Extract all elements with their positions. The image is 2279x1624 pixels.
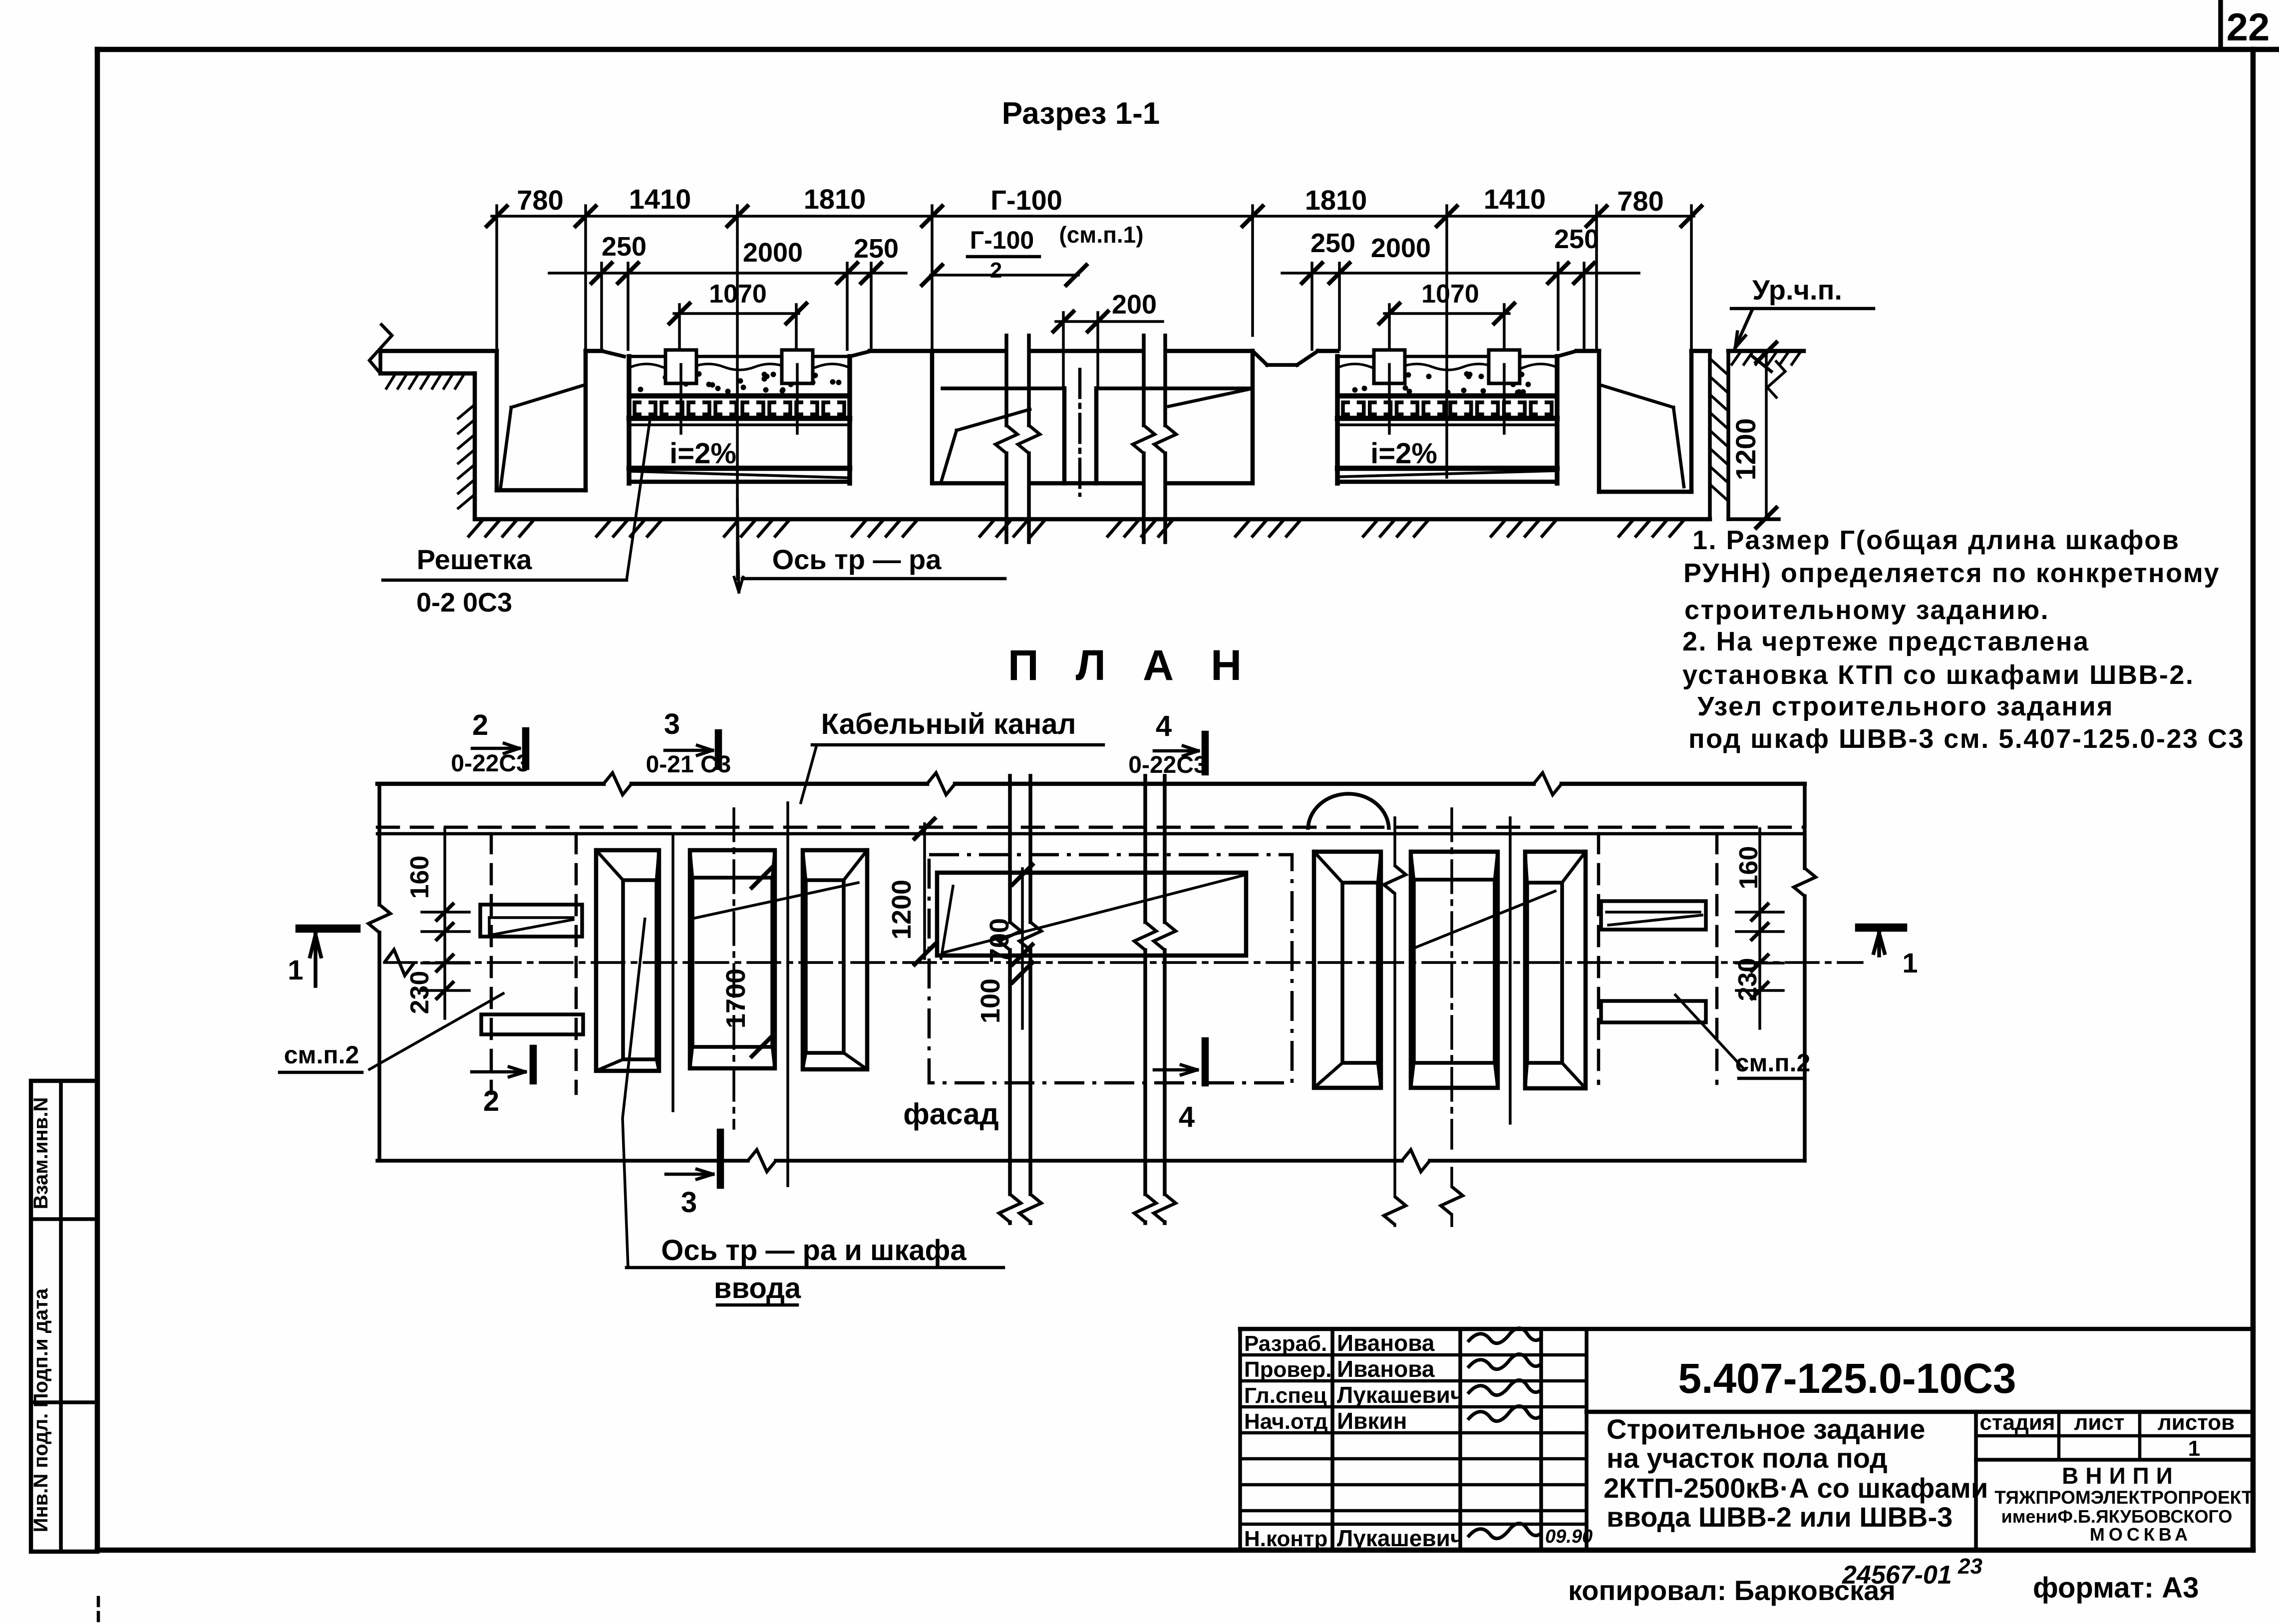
svg-text:формат: А3: формат: А3 <box>2033 1572 2199 1604</box>
svg-text:Ось тр — ра: Ось тр — ра <box>772 544 942 575</box>
svg-text:4: 4 <box>1156 710 1172 742</box>
svg-text:Решетка: Решетка <box>417 544 533 575</box>
svg-text:(см.п.1): (см.п.1) <box>1059 222 1143 248</box>
svg-text:1070: 1070 <box>709 280 767 309</box>
svg-text:см.п.2: см.п.2 <box>284 1041 359 1069</box>
svg-text:250: 250 <box>854 234 899 264</box>
svg-text:см.п.2: см.п.2 <box>1735 1049 1811 1077</box>
svg-text:0-22С3: 0-22С3 <box>451 750 529 777</box>
svg-text:Лукашевич: Лукашевич <box>1337 1525 1464 1551</box>
svg-text:Г-100: Г-100 <box>970 226 1034 254</box>
svg-text:780: 780 <box>517 184 563 216</box>
svg-text:230: 230 <box>1733 958 1762 1001</box>
svg-text:Узел строительного задания: Узел строительного задания <box>1697 691 2114 721</box>
svg-text:230: 230 <box>405 971 434 1014</box>
svg-text:0-22С3: 0-22С3 <box>1128 752 1207 778</box>
svg-text:100: 100 <box>976 978 1005 1023</box>
svg-text:РУНН) определяется по конкретн: РУНН) определяется по конкретному <box>1683 558 2220 588</box>
svg-text:1200: 1200 <box>887 880 917 940</box>
svg-text:3: 3 <box>681 1186 697 1219</box>
svg-text:i=2%: i=2% <box>1370 437 1437 470</box>
svg-text:МОСКВА: МОСКВА <box>2090 1524 2192 1545</box>
svg-text:стадия: стадия <box>1979 1410 2055 1435</box>
svg-text:Г-100: Г-100 <box>990 184 1062 216</box>
svg-text:i=2%: i=2% <box>669 437 736 470</box>
svg-text:0-21 С3: 0-21 С3 <box>646 751 731 778</box>
svg-text:Ивкин: Ивкин <box>1337 1408 1407 1434</box>
svg-text:Провер.: Провер. <box>1244 1357 1331 1382</box>
svg-text:09.90: 09.90 <box>1545 1526 1593 1547</box>
svg-text:250: 250 <box>1554 224 1599 254</box>
svg-text:1200: 1200 <box>1730 418 1761 481</box>
svg-text:имениФ.Б.ЯКУБОВСКОГО: имениФ.Б.ЯКУБОВСКОГО <box>2001 1506 2233 1527</box>
svg-text:2000: 2000 <box>743 238 803 268</box>
svg-text:Ось тр — ра и шкафа: Ось тр — ра и шкафа <box>661 1234 967 1267</box>
svg-text:ввода ШВВ-2 или ШВВ-3: ввода ШВВ-2 или ШВВ-3 <box>1607 1501 1953 1533</box>
svg-text:Разраб.: Разраб. <box>1244 1331 1327 1356</box>
svg-text:ВНИПИ: ВНИПИ <box>2062 1463 2180 1489</box>
svg-text:строительному заданию.: строительному заданию. <box>1684 595 2049 625</box>
svg-text:0-2 0С3: 0-2 0С3 <box>416 588 512 618</box>
svg-text:23: 23 <box>1957 1554 1982 1579</box>
svg-text:ввода: ввода <box>714 1272 801 1304</box>
svg-text:2. На чертеже представлена: 2. На чертеже представлена <box>1682 627 2090 656</box>
svg-text:Лукашевич: Лукашевич <box>1337 1382 1464 1408</box>
svg-text:фасад: фасад <box>903 1097 998 1131</box>
svg-text:700: 700 <box>984 918 1014 963</box>
svg-text:2000: 2000 <box>1371 233 1431 263</box>
svg-text:4: 4 <box>1179 1101 1195 1133</box>
svg-text:2КТП-2500кВ·А со шкафами: 2КТП-2500кВ·А со шкафами <box>1604 1472 1988 1504</box>
svg-text:Иванова: Иванова <box>1337 1356 1435 1382</box>
svg-text:лист: лист <box>2074 1410 2124 1435</box>
svg-text:1810: 1810 <box>1305 184 1367 216</box>
svg-text:Взам.инв.N: Взам.инв.N <box>30 1097 52 1210</box>
svg-text:5.407-125.0-10С3: 5.407-125.0-10С3 <box>1678 1355 2016 1402</box>
svg-text:1: 1 <box>1902 947 1918 978</box>
svg-text:под шкаф ШВВ-3 см. 5.407-125.0: под шкаф ШВВ-3 см. 5.407-125.0-23 С3 <box>1688 724 2245 754</box>
svg-text:250: 250 <box>1310 228 1355 258</box>
svg-text:Кабельный канал: Кабельный канал <box>821 708 1076 740</box>
svg-text:Нач.отд: Нач.отд <box>1244 1409 1328 1434</box>
svg-text:200: 200 <box>1112 290 1157 320</box>
svg-text:3: 3 <box>664 708 680 740</box>
svg-text:1. Размер Г(общая длина шкафов: 1. Размер Г(общая длина шкафов <box>1692 525 2180 555</box>
svg-text:2: 2 <box>990 258 1002 283</box>
svg-text:на участок пола под: на участок пола под <box>1607 1442 1888 1474</box>
svg-text:Строительное задание: Строительное задание <box>1607 1413 1925 1445</box>
svg-text:Подп.и дата: Подп.и дата <box>30 1288 52 1407</box>
svg-text:1410: 1410 <box>629 183 691 215</box>
svg-text:1: 1 <box>288 954 303 985</box>
svg-text:ТЯЖПРОМЭЛЕКТРОПРОЕКТ: ТЯЖПРОМЭЛЕКТРОПРОЕКТ <box>1994 1487 2253 1508</box>
svg-text:1700: 1700 <box>721 969 751 1028</box>
svg-text:1: 1 <box>2188 1436 2200 1461</box>
svg-text:1810: 1810 <box>804 183 866 215</box>
svg-text:2: 2 <box>472 709 488 741</box>
svg-text:Иванова: Иванова <box>1337 1330 1435 1356</box>
svg-text:22: 22 <box>2227 5 2270 49</box>
svg-text:250: 250 <box>602 232 647 262</box>
svg-text:24567-01: 24567-01 <box>1842 1561 1952 1590</box>
svg-text:Разрез 1-1: Разрез 1-1 <box>1002 96 1160 131</box>
svg-text:листов: листов <box>2158 1410 2235 1435</box>
svg-text:160: 160 <box>1734 846 1763 890</box>
svg-text:1410: 1410 <box>1484 183 1546 215</box>
svg-text:Гл.спец: Гл.спец <box>1244 1383 1327 1408</box>
svg-text:Н.контр: Н.контр <box>1244 1527 1327 1551</box>
svg-text:установка КТП со шкафами ШВВ-2: установка КТП со шкафами ШВВ-2. <box>1682 660 2194 690</box>
svg-text:ПЛАН: ПЛАН <box>1008 642 1279 689</box>
svg-text:Инв.N подл.: Инв.N подл. <box>30 1413 52 1533</box>
svg-text:160: 160 <box>405 856 434 899</box>
svg-text:2: 2 <box>483 1085 499 1117</box>
svg-text:Ур.ч.п.: Ур.ч.п. <box>1752 274 1842 306</box>
svg-text:780: 780 <box>1617 185 1663 217</box>
svg-text:1070: 1070 <box>1421 280 1479 309</box>
